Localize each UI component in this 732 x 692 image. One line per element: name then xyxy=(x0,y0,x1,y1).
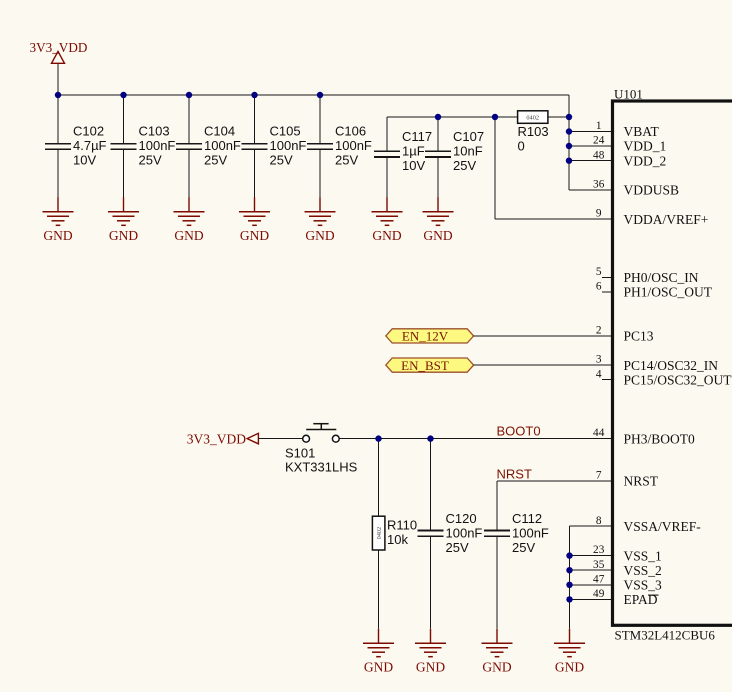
junction at 438,117 xyxy=(435,114,441,120)
svg-text:GND: GND xyxy=(423,228,452,243)
pin 24 VDD_1 xyxy=(593,135,666,154)
wire pin6 stub xyxy=(602,291,611,293)
junction at 569.5,599.4 xyxy=(566,596,572,602)
svg-text:PC15/OSC32_OUT: PC15/OSC32_OUT xyxy=(624,372,732,387)
svg-text:100nF: 100nF xyxy=(446,526,483,541)
wire pin24 VDD_1 xyxy=(569,145,611,147)
wire pin3 PC14 xyxy=(474,364,611,366)
capacitor C107 xyxy=(425,117,484,197)
svg-text:C103: C103 xyxy=(139,124,170,139)
pin 4 PC15/OSC32_OUT xyxy=(596,368,732,387)
svg-text:44: 44 xyxy=(593,427,605,439)
svg-text:C120: C120 xyxy=(446,511,477,526)
pin 2 PC13 xyxy=(596,325,654,344)
svg-text:GND: GND xyxy=(555,660,584,675)
junction at 569,117 xyxy=(566,114,572,120)
junction at 58,95 xyxy=(55,92,61,98)
svg-text:9: 9 xyxy=(596,208,602,220)
svg-text:0: 0 xyxy=(518,139,525,154)
wire VSS vertical xyxy=(569,526,571,629)
pin 7 NRST xyxy=(596,470,659,489)
svg-text:EN_12V: EN_12V xyxy=(402,329,449,344)
svg-text:C112: C112 xyxy=(512,511,542,526)
wire pin48 VDD_2 xyxy=(569,160,611,162)
ground (under R110) xyxy=(363,629,394,675)
svg-text:7: 7 xyxy=(596,470,602,482)
power port 3V3_VDD (top) xyxy=(30,40,88,63)
svg-text:25V: 25V xyxy=(453,158,476,173)
svg-text:25V: 25V xyxy=(204,153,227,168)
capacitor C117 xyxy=(374,117,432,197)
ground (under C117) xyxy=(372,197,403,243)
junction at 495,117 xyxy=(492,114,498,120)
svg-text:25V: 25V xyxy=(139,153,162,168)
ground (under C105) xyxy=(239,197,270,243)
svg-text:100nF: 100nF xyxy=(512,526,549,541)
wire BOOT0 to R110 xyxy=(378,439,380,517)
svg-text:2: 2 xyxy=(596,325,602,337)
svg-text:8: 8 xyxy=(596,515,602,527)
svg-text:VSS_1: VSS_1 xyxy=(624,548,662,563)
svg-text:VSSA/VREF-: VSSA/VREF- xyxy=(624,519,702,534)
svg-text:100nF: 100nF xyxy=(204,138,241,153)
svg-text:C104: C104 xyxy=(204,124,235,139)
svg-text:PH3/BOOT0: PH3/BOOT0 xyxy=(624,431,696,446)
svg-text:24: 24 xyxy=(593,135,605,147)
capacitor C106 xyxy=(307,95,372,197)
svg-text:PC14/OSC32_IN: PC14/OSC32_IN xyxy=(624,358,719,373)
svg-text:GND: GND xyxy=(482,660,511,675)
svg-text:VDDA/VREF+: VDDA/VREF+ xyxy=(624,212,709,227)
svg-text:100nF: 100nF xyxy=(139,138,176,153)
pin 47 VSS_3 xyxy=(593,573,662,592)
svg-text:4: 4 xyxy=(596,368,602,380)
svg-text:3V3_VDD: 3V3_VDD xyxy=(187,432,246,447)
svg-text:47: 47 xyxy=(593,573,605,585)
op-amp/IC U101 STM32L412CBU6 xyxy=(613,86,732,642)
pin 5 PH0/OSC_IN xyxy=(596,266,699,285)
svg-text:49: 49 xyxy=(593,588,605,600)
svg-text:EPAD: EPAD xyxy=(624,592,658,607)
wire C112 to ground xyxy=(496,537,498,629)
svg-text:EN_BST: EN_BST xyxy=(401,358,449,373)
wire pin47 VSS_3 xyxy=(570,584,612,586)
svg-text:GND: GND xyxy=(174,228,203,243)
pin 48 VDD_2 xyxy=(593,149,666,168)
junction at 569.5,570.2 xyxy=(566,567,572,573)
wire pin5 stub xyxy=(602,277,611,279)
svg-text:C106: C106 xyxy=(335,124,366,139)
pin 44 PH3/BOOT0 xyxy=(593,427,695,446)
svg-text:3: 3 xyxy=(596,354,602,366)
wire pin1 VBAT xyxy=(569,131,611,133)
capacitor C103 xyxy=(111,95,176,197)
capacitor C105 xyxy=(242,95,307,197)
svg-text:25V: 25V xyxy=(446,540,469,555)
svg-text:1: 1 xyxy=(596,120,602,132)
wire R110 to ground xyxy=(378,550,380,629)
svg-text:NRST: NRST xyxy=(624,474,659,489)
ground (under C106) xyxy=(305,197,336,243)
pin 35 VSS_2 xyxy=(593,559,662,578)
ground (VSS net) xyxy=(554,629,585,675)
svg-text:GND: GND xyxy=(364,660,393,675)
wire pin49 EPAD xyxy=(570,598,612,600)
svg-text:VSS_3: VSS_3 xyxy=(624,578,663,593)
wire NRST to C112 xyxy=(496,481,498,530)
svg-text:1µF: 1µF xyxy=(402,144,425,159)
svg-text:STM32L412CBU6: STM32L412CBU6 xyxy=(615,628,716,643)
svg-text:S101: S101 xyxy=(285,446,315,461)
pin 3 PC14/OSC32_IN xyxy=(596,354,718,373)
wire pin8 VSSA/VREF- xyxy=(570,525,612,527)
svg-text:10nF: 10nF xyxy=(453,144,483,159)
junction at 569,146 xyxy=(566,143,572,149)
svg-text:10k: 10k xyxy=(387,532,408,547)
wire switch to pin44 PH3/BOOT0 xyxy=(340,438,612,440)
svg-text:R110: R110 xyxy=(387,517,417,532)
svg-text:23: 23 xyxy=(593,544,605,556)
svg-text:NRST: NRST xyxy=(497,466,532,481)
svg-text:25V: 25V xyxy=(335,153,358,168)
junction at 569.5,584.8 xyxy=(566,582,572,588)
push-button S101 xyxy=(285,424,358,475)
pin 6 PH1/OSC_OUT xyxy=(596,281,713,300)
svg-text:VDDUSB: VDDUSB xyxy=(624,183,680,198)
ground (under C112) xyxy=(482,629,513,675)
junction at 254.5,95 xyxy=(251,92,257,98)
pin 36 VDDUSB xyxy=(593,179,679,198)
capacitor C104 xyxy=(176,95,241,197)
pin 49 EPAD xyxy=(593,588,658,607)
wire power stub xyxy=(57,64,59,95)
svg-text:VDD_1: VDD_1 xyxy=(624,139,667,154)
svg-text:GND: GND xyxy=(240,228,269,243)
svg-text:C117: C117 xyxy=(402,129,432,144)
wire pin35 VSS_2 xyxy=(570,569,612,571)
wire top VDD bus xyxy=(58,94,569,96)
junction at 189,95 xyxy=(186,92,192,98)
wire VDDA vertical drop xyxy=(494,117,496,219)
svg-text:C105: C105 xyxy=(270,124,301,139)
ground (under C102) xyxy=(43,197,74,243)
harness port EN_BST xyxy=(386,358,474,373)
svg-text:36: 36 xyxy=(593,179,605,191)
wire VDD vertical to pins xyxy=(568,95,570,190)
ground (under C107) xyxy=(423,197,454,243)
svg-text:BOOT0: BOOT0 xyxy=(497,424,541,439)
svg-text:GND: GND xyxy=(43,228,72,243)
svg-text:PC13: PC13 xyxy=(624,329,654,344)
ground (under C120) xyxy=(415,629,446,675)
wire pin23 VSS_1 xyxy=(570,555,612,557)
junction at 430.5,438.6 xyxy=(427,435,433,441)
junction at 569.5,555.6 xyxy=(566,552,572,558)
harness port EN_12V xyxy=(386,329,474,344)
ground (under C104) xyxy=(174,197,205,243)
power port 3V3_VDD (at switch) xyxy=(187,432,259,447)
ground (under C103) xyxy=(108,197,139,243)
svg-text:25V: 25V xyxy=(270,153,293,168)
junction at 569,160.7 xyxy=(566,158,572,164)
capacitor C112 xyxy=(484,511,549,555)
svg-text:VDD_2: VDD_2 xyxy=(624,153,667,168)
wire pin2 PC13 xyxy=(474,335,611,337)
pin 1 VBAT xyxy=(596,120,660,139)
wire C120 to ground xyxy=(430,537,432,629)
svg-text:10V: 10V xyxy=(402,158,425,173)
svg-text:25V: 25V xyxy=(512,540,535,555)
svg-text:4.7µF: 4.7µF xyxy=(73,138,107,153)
pin 8 VSSA/VREF- xyxy=(596,515,701,534)
svg-text:GND: GND xyxy=(305,228,334,243)
wire power arrow to switch xyxy=(258,438,302,440)
wire BOOT0 to C120 xyxy=(430,439,432,530)
svg-text:6: 6 xyxy=(596,281,602,293)
svg-text:100nF: 100nF xyxy=(270,138,307,153)
capacitor C120 xyxy=(418,511,483,555)
junction at 320,95 xyxy=(317,92,323,98)
svg-text:C102: C102 xyxy=(73,124,104,139)
junction at 123.5,95 xyxy=(120,92,126,98)
svg-text:10V: 10V xyxy=(73,153,96,168)
wire R103 right to VDD vertical xyxy=(548,116,569,118)
resistor R110 xyxy=(372,516,417,550)
junction at 378.5,438.6 xyxy=(375,435,381,441)
svg-text:R103: R103 xyxy=(518,124,549,139)
pin 9 VDDA/VREF+ xyxy=(596,208,709,227)
svg-text:100nF: 100nF xyxy=(335,138,372,153)
svg-text:U101: U101 xyxy=(614,86,643,101)
svg-text:VSS_2: VSS_2 xyxy=(624,563,662,578)
svg-text:5: 5 xyxy=(596,266,602,278)
svg-text:VBAT: VBAT xyxy=(624,124,660,139)
svg-text:PH0/OSC_IN: PH0/OSC_IN xyxy=(624,270,699,285)
svg-text:0402: 0402 xyxy=(376,527,383,540)
svg-text:PH1/OSC_OUT: PH1/OSC_OUT xyxy=(624,285,713,300)
svg-text:GND: GND xyxy=(372,228,401,243)
svg-text:GND: GND xyxy=(416,660,445,675)
pin 23 VSS_1 xyxy=(593,544,662,563)
wire VDDA filter bus xyxy=(387,116,518,118)
svg-text:35: 35 xyxy=(593,559,605,571)
junction at 569,131.5 xyxy=(566,128,572,134)
wire pin4 stub xyxy=(602,379,611,381)
wire pin9 VDDA/VREF+ xyxy=(495,218,611,220)
svg-text:0402: 0402 xyxy=(526,114,539,121)
svg-text:KXT331LHS: KXT331LHS xyxy=(285,460,358,475)
svg-text:C107: C107 xyxy=(453,129,484,144)
svg-text:48: 48 xyxy=(593,149,605,161)
svg-text:GND: GND xyxy=(109,228,138,243)
wire pin36 VDDUSB xyxy=(569,189,611,191)
wire pin7 NRST xyxy=(497,480,611,482)
capacitor C102 xyxy=(45,95,107,197)
resistor R103 xyxy=(518,111,549,154)
